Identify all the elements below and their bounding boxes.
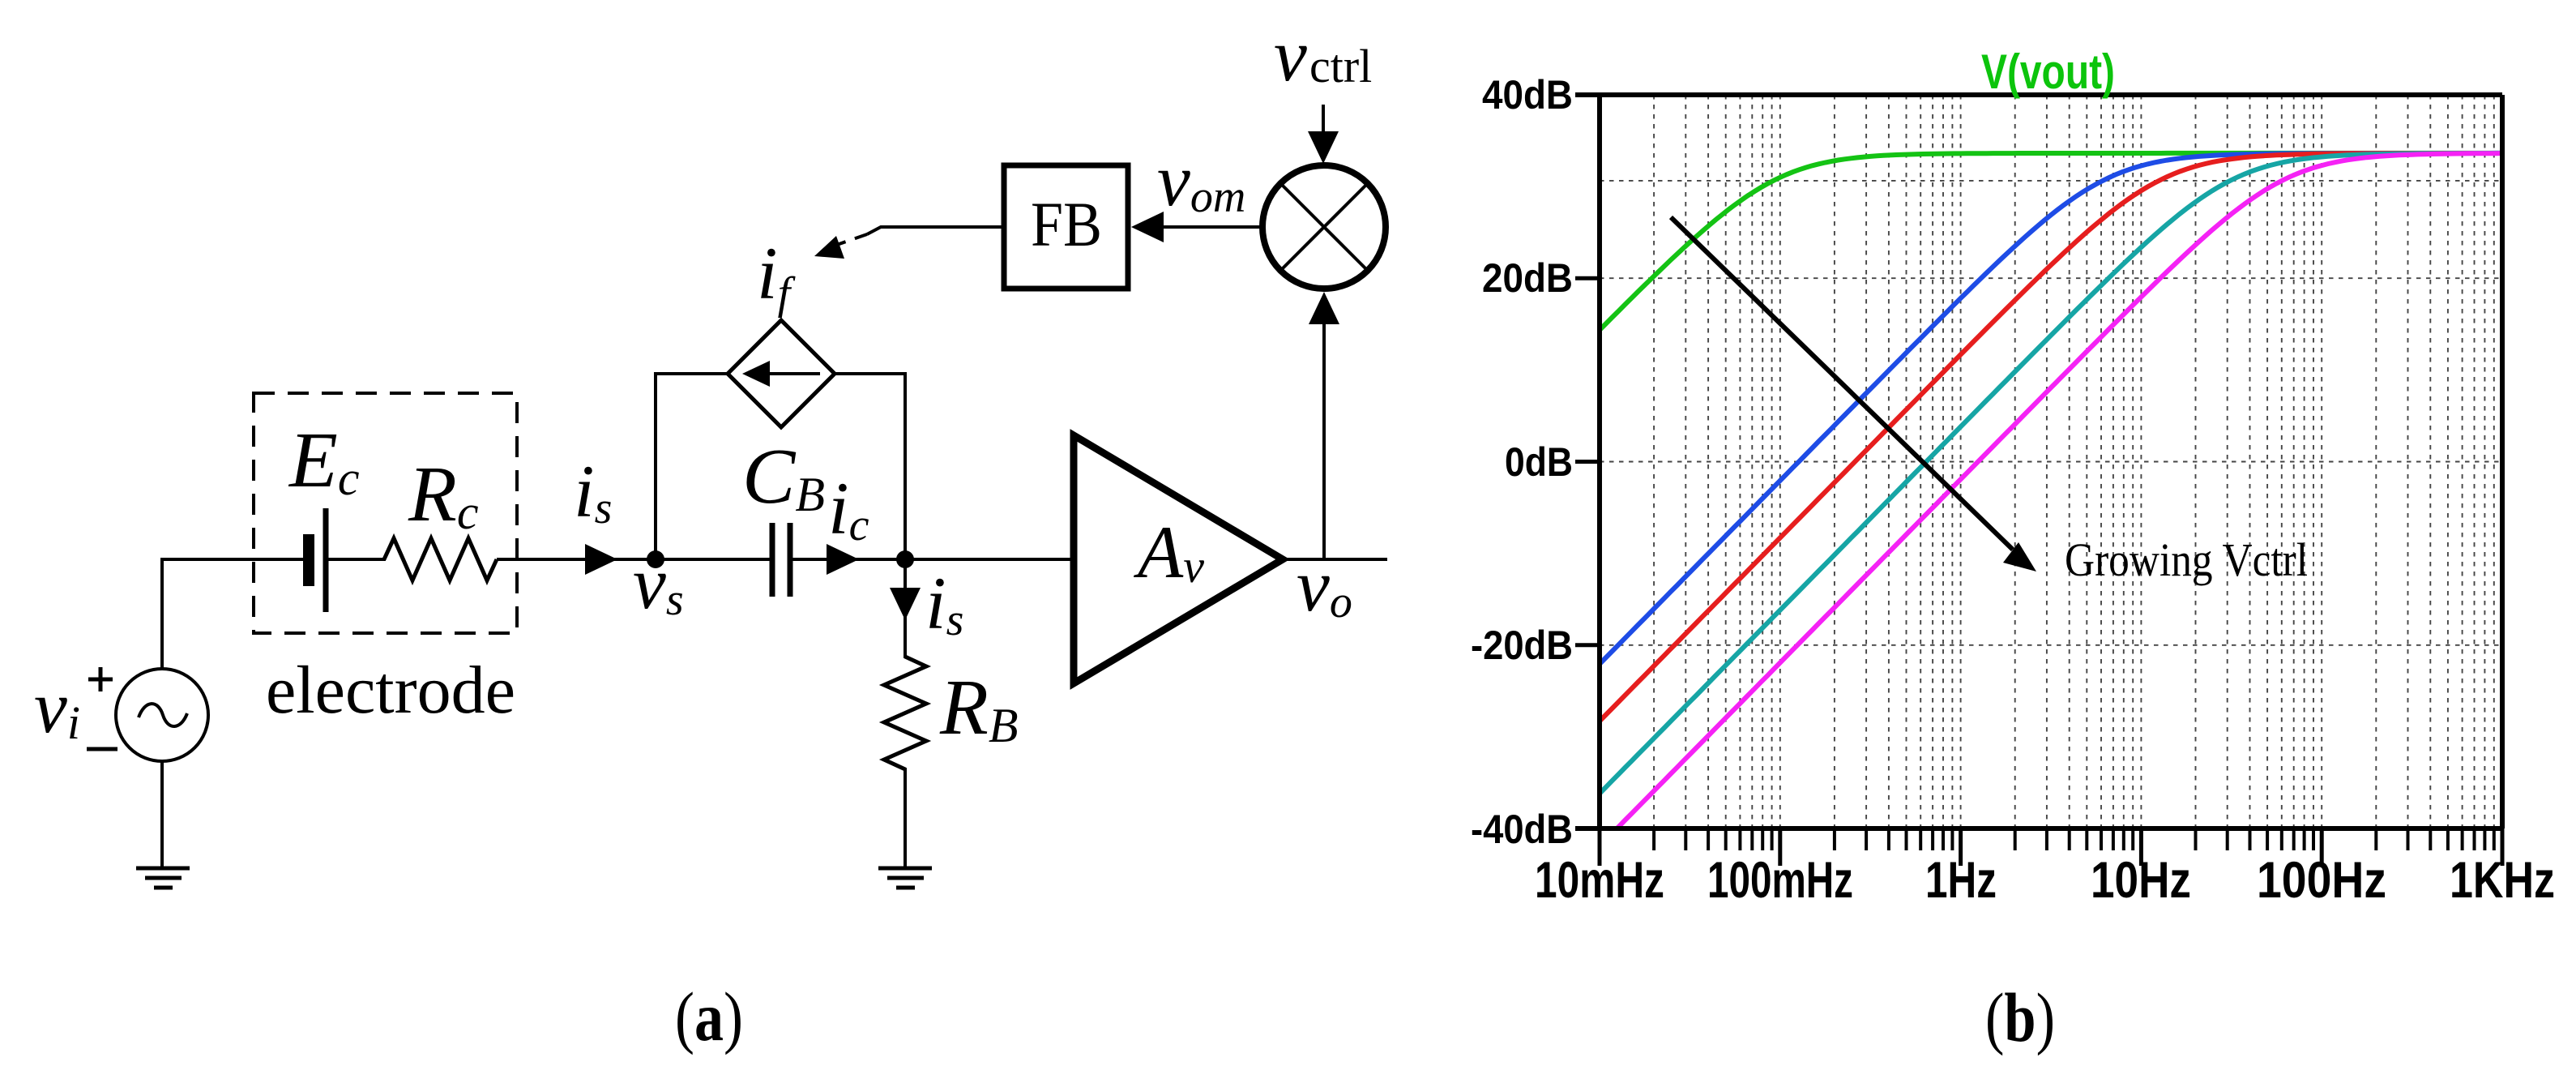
current arrow i_c [827,544,859,575]
annotation arrow Growing Vctrl [1671,217,2013,550]
dependent current source i_f (diamond) [728,320,835,427]
curve red fc=12.5 [1600,153,2502,721]
curve green fc=0.09 [1600,153,2502,330]
wire source bottom to ground [160,761,164,868]
svg-text:electrode: electrode [266,653,515,728]
y axis labels [1471,72,1573,852]
svg-text:40dB: 40dB [1482,72,1573,118]
svg-text:v: v [1274,14,1307,96]
current arrow i_s down [890,588,921,620]
feedback wire from FB [867,227,1004,234]
capacitor C_B [772,523,790,597]
op-amp A_v [1074,435,1283,683]
ground under v_i [136,868,190,888]
wire R_B to ground [904,768,907,868]
svg-text:100mHz: 100mHz [1707,852,1853,909]
wire node to capacitor [656,558,770,561]
node at R_B [896,550,914,568]
wire source top to main line [160,559,164,669]
minus sign of v_i [87,747,117,751]
curve blue fc=6.1 [1600,153,2502,664]
svg-text:20dB: 20dB [1482,255,1573,301]
arrow inside diamond [760,372,820,375]
x axis major ticks [1600,828,2502,866]
wire resistor to node v_s [497,558,657,561]
FB block [1004,165,1128,289]
plus sign of v_i [88,667,113,691]
svg-text:1Hz: 1Hz [1925,852,1997,909]
dashed feedback arrow [830,234,867,247]
svg-text:10Hz: 10Hz [2091,852,2191,909]
curve teal fc=31 [1600,153,2502,794]
multiplier circle [1262,165,1386,289]
horizontal dashed gridlines [1600,181,2502,645]
svg-text:-20dB: -20dB [1471,623,1573,668]
resistor R_c [384,538,497,580]
wire main left segment [160,558,305,561]
curve magenta fc=60 [1617,153,2502,828]
y axis ticks [1575,278,1600,645]
svg-text:Growing Vctrl: Growing Vctrl [2065,533,2308,586]
wire diamond right to node [835,374,905,559]
wire output up to multiplier [1322,316,1326,559]
battery E_c [309,508,326,612]
wire node to amplifier [905,558,1075,561]
svg-text:(a): (a) [675,978,743,1055]
x axis minor ticks [1654,828,2494,850]
resistor R_B [884,657,926,769]
ground under R_B [878,868,932,888]
plot border [1575,95,2502,828]
svg-text:ctrl: ctrl [1309,40,1372,92]
svg-text:1KHz: 1KHz [2450,852,2555,909]
arrow into multiplier bottom [1309,292,1339,324]
x axis labels [1535,852,2555,909]
current arrow i_s [585,544,617,575]
node v_s [647,550,664,568]
svg-text:(b): (b) [1985,978,2055,1056]
svg-text:-40dB: -40dB [1471,807,1573,852]
multiplier X [1280,183,1368,271]
wire multiplier to FB with arrow v_om [1134,225,1262,229]
vertical dashed gridlines [1654,95,2494,828]
wire capacitor to node 2 [792,558,907,561]
wire diamond left to node v_s [656,374,728,559]
svg-text:100Hz: 100Hz [2257,852,2386,909]
svg-text:FB: FB [1031,189,1102,259]
wire node down to R_B [904,559,907,658]
output wire v_o [1281,558,1387,561]
electrode dashed box [254,393,517,633]
svg-text:0dB: 0dB [1505,439,1573,485]
voltage source v_i [116,669,208,761]
svg-text:V(vout): V(vout) [1981,45,2115,99]
wire battery to resistor [328,558,386,561]
svg-text:10mHz: 10mHz [1535,852,1664,909]
v_ctrl wire and arrow [1322,105,1325,138]
